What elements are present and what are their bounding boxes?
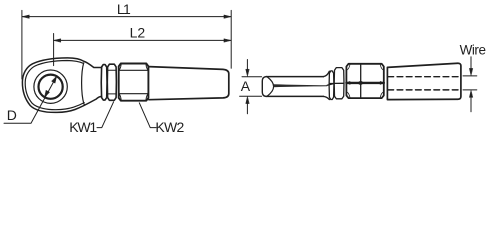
svg-text:KW2: KW2 — [155, 119, 184, 135]
svg-text:D: D — [7, 107, 17, 123]
svg-text:Wire: Wire — [460, 43, 486, 58]
svg-text:L1: L1 — [117, 1, 131, 17]
svg-text:L2: L2 — [130, 24, 146, 40]
svg-text:A: A — [241, 78, 251, 94]
svg-text:KW1: KW1 — [69, 119, 97, 135]
